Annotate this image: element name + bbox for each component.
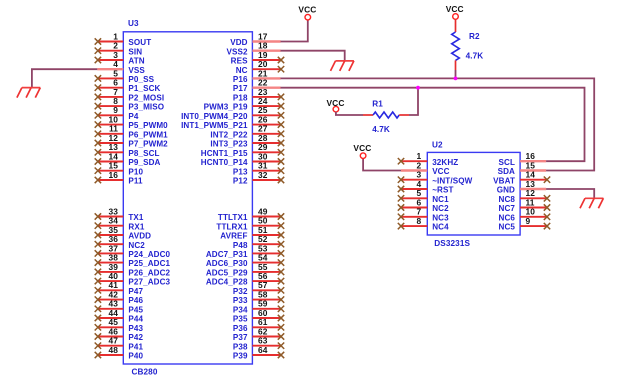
svg-text:P12: P12: [233, 177, 248, 186]
svg-text:P41: P41: [128, 342, 143, 351]
svg-text:U3: U3: [128, 19, 139, 28]
svg-text:P1_SCK: P1_SCK: [128, 84, 160, 93]
svg-text:P37: P37: [233, 333, 248, 342]
svg-text:VCC: VCC: [327, 98, 345, 108]
svg-text:VBAT: VBAT: [493, 176, 515, 185]
svg-text:VCC: VCC: [432, 167, 449, 176]
svg-text:RX1: RX1: [128, 222, 144, 231]
svg-text:32KHZ: 32KHZ: [432, 158, 458, 167]
svg-text:HCNT0_P14: HCNT0_P14: [201, 158, 248, 167]
svg-text:P40: P40: [128, 352, 143, 361]
svg-text:VDD: VDD: [230, 38, 247, 47]
svg-text:NC4: NC4: [432, 223, 449, 232]
svg-text:P48: P48: [233, 241, 248, 250]
svg-text:64: 64: [258, 345, 268, 355]
svg-text:GND: GND: [497, 186, 515, 195]
svg-text:INT3_P23: INT3_P23: [210, 140, 248, 149]
svg-text:AVREF: AVREF: [220, 232, 247, 241]
svg-text:P16: P16: [233, 75, 248, 84]
svg-text:R1: R1: [372, 99, 383, 108]
svg-text:SOUT: SOUT: [128, 38, 151, 47]
svg-text:9: 9: [526, 216, 531, 226]
svg-text:P9_SDA: P9_SDA: [128, 158, 160, 167]
svg-text:ADC7_P31: ADC7_P31: [206, 250, 248, 259]
svg-text:SIN: SIN: [128, 47, 142, 56]
svg-text:INT2_P22: INT2_P22: [210, 130, 248, 139]
svg-text:NC: NC: [236, 66, 248, 75]
svg-text:NC6: NC6: [499, 213, 516, 222]
svg-text:P43: P43: [128, 324, 143, 333]
svg-text:P32: P32: [233, 287, 248, 296]
svg-text:NC1: NC1: [432, 195, 449, 204]
svg-text:P10: P10: [128, 167, 143, 176]
svg-text:P7_PWM2: P7_PWM2: [128, 140, 168, 149]
svg-text:SDA: SDA: [498, 167, 515, 176]
svg-text:P25_ADC1: P25_ADC1: [128, 259, 170, 268]
svg-text:PWM3_P19: PWM3_P19: [204, 103, 248, 112]
svg-text:NC2: NC2: [128, 241, 145, 250]
svg-text:P44: P44: [128, 315, 143, 324]
svg-text:U2: U2: [432, 141, 443, 150]
svg-text:4.7K: 4.7K: [372, 125, 390, 134]
svg-text:P8_SCL: P8_SCL: [128, 149, 159, 158]
svg-text:NC7: NC7: [499, 204, 516, 213]
svg-text:CB280: CB280: [132, 368, 158, 377]
svg-text:P47: P47: [128, 287, 143, 296]
svg-text:P4: P4: [128, 112, 138, 121]
svg-text:RES: RES: [231, 57, 248, 66]
svg-text:P39: P39: [233, 352, 248, 361]
svg-text:32: 32: [258, 170, 268, 180]
svg-text:P17: P17: [233, 84, 248, 93]
svg-text:VCC: VCC: [353, 143, 371, 153]
svg-text:R2: R2: [469, 32, 480, 41]
svg-text:NC8: NC8: [499, 195, 516, 204]
svg-text:VSS: VSS: [128, 66, 145, 75]
svg-text:P46: P46: [128, 296, 143, 305]
svg-text:8: 8: [417, 216, 422, 226]
svg-text:DS3231S: DS3231S: [434, 239, 470, 248]
svg-text:INT0_PWM4_P20: INT0_PWM4_P20: [181, 112, 248, 121]
svg-text:P0_SS: P0_SS: [128, 75, 154, 84]
svg-text:VCC: VCC: [298, 4, 316, 14]
svg-text:48: 48: [108, 345, 118, 355]
svg-text:P5_PWM0: P5_PWM0: [128, 121, 168, 130]
svg-text:INT1_PWM5_P21: INT1_PWM5_P21: [181, 121, 248, 130]
svg-text:P3_MISO: P3_MISO: [128, 103, 164, 112]
svg-text:SCL: SCL: [499, 158, 516, 167]
svg-text:VSS2: VSS2: [226, 47, 247, 56]
svg-text:P6_PWM1: P6_PWM1: [128, 130, 168, 139]
svg-text:P27_ADC3: P27_ADC3: [128, 278, 170, 287]
svg-text:P42: P42: [128, 333, 143, 342]
svg-text:P35: P35: [233, 315, 248, 324]
svg-text:P26_ADC2: P26_ADC2: [128, 269, 170, 278]
svg-text:~INT/SQW: ~INT/SQW: [432, 176, 472, 185]
svg-text:NC5: NC5: [499, 223, 516, 232]
svg-text:16: 16: [108, 170, 118, 180]
svg-text:P36: P36: [233, 324, 248, 333]
svg-text:~RST: ~RST: [432, 186, 453, 195]
svg-text:P24_ADC0: P24_ADC0: [128, 250, 170, 259]
svg-text:TTLTX1: TTLTX1: [218, 213, 248, 222]
svg-text:P38: P38: [233, 342, 248, 351]
svg-text:AVDD: AVDD: [128, 232, 151, 241]
svg-text:ADC5_P29: ADC5_P29: [206, 269, 248, 278]
svg-text:ADC6_P30: ADC6_P30: [206, 259, 248, 268]
svg-text:P13: P13: [233, 167, 248, 176]
svg-text:P18: P18: [233, 94, 248, 103]
svg-text:TX1: TX1: [128, 213, 144, 222]
svg-text:P2_MOSI: P2_MOSI: [128, 94, 164, 103]
svg-text:4.7K: 4.7K: [466, 52, 484, 61]
svg-text:P45: P45: [128, 305, 143, 314]
svg-text:HCNT1_P15: HCNT1_P15: [201, 149, 248, 158]
svg-text:TTLRX1: TTLRX1: [216, 222, 248, 231]
svg-text:NC2: NC2: [432, 204, 449, 213]
svg-text:P33: P33: [233, 296, 248, 305]
svg-text:ATN: ATN: [128, 57, 144, 66]
svg-text:P34: P34: [233, 305, 248, 314]
svg-text:VCC: VCC: [446, 4, 464, 14]
svg-text:ADC4_P28: ADC4_P28: [206, 278, 248, 287]
svg-text:NC3: NC3: [432, 213, 449, 222]
svg-text:P11: P11: [128, 177, 143, 186]
